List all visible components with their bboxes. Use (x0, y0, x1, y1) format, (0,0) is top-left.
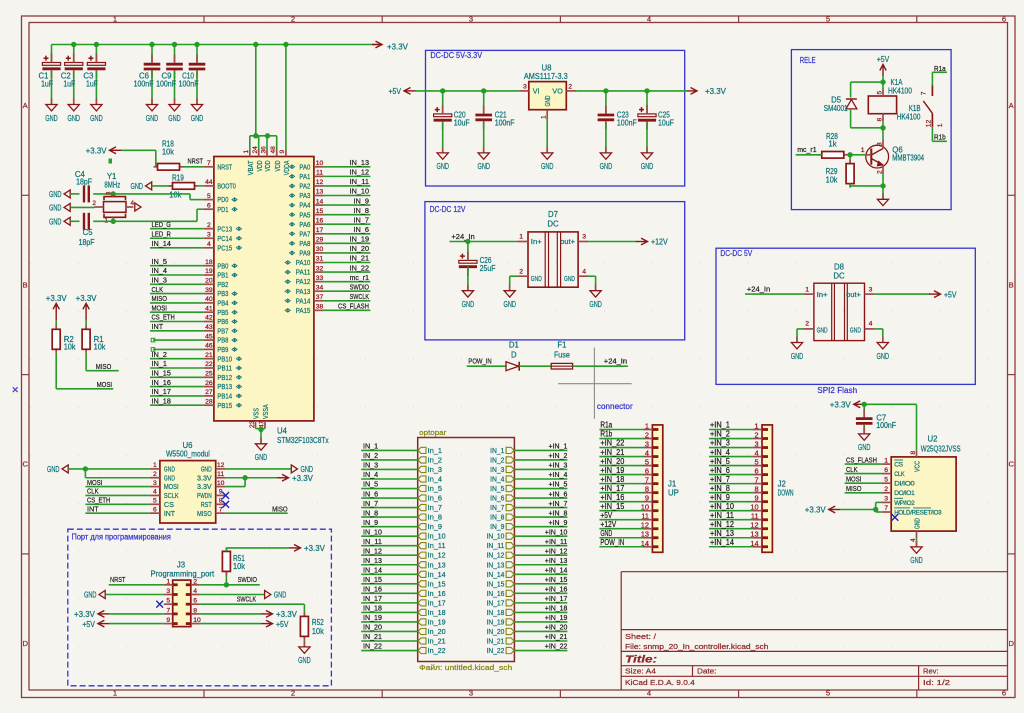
svg-text:PA3: PA3 (299, 191, 310, 200)
svg-text:34: 34 (316, 284, 324, 291)
svg-text:D1: D1 (509, 341, 519, 350)
svg-text:B: B (1009, 280, 1014, 289)
svg-text:+5V: +5V (877, 55, 890, 64)
svg-text:PB11: PB11 (217, 364, 232, 373)
svg-text:GND: GND (910, 556, 923, 565)
svg-text:IN_14: IN_14 (152, 239, 171, 248)
svg-text:D: D (22, 639, 28, 648)
svg-text:In+: In+ (817, 290, 828, 299)
svg-text:GND: GND (913, 518, 922, 529)
svg-text:IN_6: IN_6 (354, 225, 370, 234)
svg-text:6: 6 (153, 506, 157, 513)
svg-text:PA5: PA5 (299, 210, 310, 219)
svg-text:9: 9 (166, 617, 170, 624)
svg-text:IN_7: IN_7 (354, 215, 370, 224)
svg-text:IN_2: IN_2 (363, 451, 378, 460)
svg-text:PA6: PA6 (299, 220, 310, 229)
svg-text:DOWN: DOWN (778, 489, 794, 498)
svg-text:IN_9: IN_9 (363, 518, 378, 527)
svg-text:IN_5: IN_5 (152, 257, 168, 266)
svg-text:+IN_10: +IN_10 (545, 527, 568, 536)
svg-text:8: 8 (876, 118, 883, 122)
svg-text:5: 5 (166, 598, 170, 605)
svg-text:40: 40 (205, 296, 213, 303)
svg-text:HK4100: HK4100 (888, 87, 912, 96)
svg-text:U2: U2 (928, 435, 938, 444)
svg-text:2: 2 (519, 268, 523, 275)
svg-text:In_20: In_20 (428, 629, 446, 636)
svg-text:+IN_4: +IN_4 (710, 448, 731, 457)
svg-text:18: 18 (205, 259, 213, 266)
svg-text:8: 8 (645, 485, 649, 494)
svg-text:In_11: In_11 (428, 543, 446, 550)
svg-text:IN_1: IN_1 (490, 448, 504, 455)
svg-text:9: 9 (279, 150, 286, 154)
svg-text:10k: 10k (94, 343, 106, 352)
svg-text:W5500_modul: W5500_modul (166, 449, 210, 458)
svg-text:3: 3 (153, 480, 157, 487)
svg-text:+IN_4: +IN_4 (549, 470, 568, 479)
svg-text:+3.3V: +3.3V (830, 401, 851, 410)
svg-text:DC-DC 12V: DC-DC 12V (430, 205, 466, 214)
svg-text:IN_18: IN_18 (363, 604, 382, 613)
svg-text:CS_ETH: CS_ETH (87, 496, 110, 505)
svg-text:GND: GND (191, 114, 204, 123)
svg-text:100nF: 100nF (156, 80, 176, 89)
svg-text:IN_16: IN_16 (487, 591, 505, 598)
svg-text:MISO: MISO (272, 504, 288, 513)
svg-text:Порт для программирования: Порт для программирования (72, 533, 171, 542)
svg-text:PB9: PB9 (217, 345, 228, 354)
svg-text:+24_In: +24_In (747, 285, 770, 294)
svg-text:MOSI: MOSI (164, 482, 179, 491)
svg-text:Fuse: Fuse (554, 350, 570, 359)
svg-text:46: 46 (205, 343, 213, 350)
svg-text:CS: CS (894, 462, 903, 469)
svg-text:1: 1 (645, 422, 649, 431)
svg-text:SWDIO: SWDIO (238, 575, 257, 584)
svg-text:IN_4: IN_4 (152, 266, 168, 275)
svg-text:IN_7: IN_7 (490, 505, 504, 512)
svg-text:20: 20 (205, 278, 213, 285)
svg-text:IN_8: IN_8 (354, 206, 370, 215)
svg-text:IN_16: IN_16 (152, 378, 171, 387)
svg-text:1k: 1k (828, 140, 836, 149)
svg-text:DC: DC (547, 220, 559, 229)
svg-text:GND: GND (791, 352, 804, 361)
svg-text:8MHz: 8MHz (104, 180, 120, 189)
svg-text:POW_IN: POW_IN (468, 356, 491, 365)
svg-text:STM32F103C8Tx: STM32F103C8Tx (277, 436, 329, 445)
svg-text:In_22: In_22 (428, 648, 446, 655)
svg-text:MOSI: MOSI (152, 303, 168, 312)
svg-text:3: 3 (869, 286, 873, 293)
svg-text:+24_In: +24_In (451, 232, 474, 241)
svg-text:+3.3V: +3.3V (805, 506, 826, 515)
svg-text:4: 4 (647, 689, 651, 698)
svg-text:SCLK: SCLK (164, 491, 179, 500)
svg-text:9: 9 (645, 494, 649, 503)
svg-text:DC: DC (833, 271, 845, 280)
svg-text:PA12: PA12 (296, 277, 311, 286)
svg-text:IN_14: IN_14 (363, 565, 382, 574)
svg-text:11: 11 (316, 170, 323, 177)
svg-text:IN_13: IN_13 (350, 158, 369, 167)
svg-text:19: 19 (205, 268, 213, 275)
svg-text:J2: J2 (778, 479, 786, 488)
svg-text:38: 38 (316, 304, 324, 311)
svg-text:7: 7 (754, 476, 758, 485)
svg-text:GND: GND (817, 325, 828, 334)
svg-text:36: 36 (260, 146, 267, 154)
svg-text:In_3: In_3 (428, 467, 442, 474)
svg-text:PC14: PC14 (217, 234, 232, 243)
svg-text:+IN_21: +IN_21 (600, 448, 624, 457)
svg-text:7: 7 (207, 160, 211, 167)
svg-text:IN_7: IN_7 (363, 499, 378, 508)
svg-text:+3.3V: +3.3V (74, 610, 95, 619)
svg-text:PA1: PA1 (299, 172, 310, 181)
svg-text:+IN_11: +IN_11 (710, 511, 734, 520)
svg-text:INT: INT (152, 322, 164, 331)
svg-text:2: 2 (291, 689, 295, 698)
svg-text:GND: GND (49, 217, 62, 226)
svg-text:28: 28 (205, 398, 213, 405)
svg-text:25: 25 (205, 371, 213, 378)
svg-text:GND: GND (531, 274, 542, 283)
svg-text:PB5: PB5 (217, 308, 228, 317)
svg-text:PB2: PB2 (217, 280, 228, 289)
svg-text:AMS1117-3.3: AMS1117-3.3 (524, 72, 568, 81)
svg-text:16: 16 (316, 217, 324, 224)
svg-text:+IN_14: +IN_14 (545, 565, 568, 574)
svg-text:R52: R52 (312, 618, 324, 627)
svg-text:1: 1 (937, 123, 944, 127)
svg-text:+IN_9: +IN_9 (549, 518, 568, 527)
svg-text:17: 17 (316, 227, 324, 234)
svg-text:3: 3 (106, 191, 113, 195)
svg-text:+IN_20: +IN_20 (545, 623, 568, 632)
svg-text:PD0: PD0 (217, 195, 228, 204)
svg-text:Rev:: Rev: (923, 667, 939, 676)
svg-text:DC-DC 5V-3.3V: DC-DC 5V-3.3V (430, 51, 482, 60)
svg-text:In_9: In_9 (428, 524, 442, 531)
svg-text:7: 7 (884, 505, 888, 512)
svg-text:12: 12 (926, 120, 933, 128)
svg-text:+5V: +5V (389, 87, 402, 96)
svg-text:GND: GND (858, 443, 871, 452)
svg-text:3: 3 (645, 440, 649, 449)
svg-text:+IN_19: +IN_19 (545, 613, 568, 622)
svg-text:IN_1: IN_1 (363, 442, 378, 451)
svg-text:IN_12: IN_12 (350, 168, 369, 177)
svg-text:GND: GND (462, 300, 475, 309)
svg-text:IN_17: IN_17 (152, 387, 171, 396)
svg-text:In_12: In_12 (428, 553, 446, 560)
svg-text:+5V: +5V (82, 620, 95, 629)
svg-text:MOSI: MOSI (97, 380, 113, 389)
svg-text:VDDA: VDDA (282, 160, 291, 175)
svg-text:CS_FLASH: CS_FLASH (338, 302, 369, 311)
svg-text:4: 4 (645, 449, 649, 458)
svg-text:IN_3: IN_3 (152, 276, 168, 285)
svg-text:mc_r1: mc_r1 (797, 145, 816, 154)
svg-text:CLK: CLK (152, 285, 164, 294)
svg-text:PB14: PB14 (217, 392, 232, 401)
svg-text:B: B (23, 280, 28, 289)
svg-text:IN_22: IN_22 (350, 263, 369, 272)
svg-text:IN_21: IN_21 (350, 254, 369, 263)
svg-text:48: 48 (270, 146, 277, 154)
svg-text:INT: INT (87, 504, 99, 513)
svg-text:GND: GND (146, 114, 159, 123)
svg-text:5: 5 (754, 458, 758, 467)
svg-text:4: 4 (131, 200, 135, 207)
svg-text:1: 1 (519, 234, 523, 241)
svg-text:29: 29 (316, 237, 324, 244)
svg-text:+IN_10: +IN_10 (710, 502, 735, 511)
svg-text:SWDIO: SWDIO (350, 282, 369, 291)
svg-text:IN_11: IN_11 (350, 177, 369, 186)
svg-text:44: 44 (205, 179, 213, 186)
svg-text:PA4: PA4 (299, 201, 310, 210)
svg-text:D8: D8 (834, 263, 844, 272)
svg-text:+IN_5: +IN_5 (710, 457, 731, 466)
svg-text:IN_13: IN_13 (487, 562, 505, 569)
svg-text:+3.3V: +3.3V (276, 610, 297, 619)
svg-text:GND: GND (168, 114, 181, 123)
svg-text:C5: C5 (83, 228, 94, 237)
svg-text:BOOT0: BOOT0 (217, 182, 235, 191)
svg-text:IN_4: IN_4 (363, 470, 378, 479)
svg-text:IN_3: IN_3 (490, 467, 504, 474)
svg-text:3.3V: 3.3V (197, 482, 212, 491)
svg-text:+IN_22: +IN_22 (545, 642, 568, 651)
svg-text:6: 6 (645, 467, 649, 476)
svg-text:IN_21: IN_21 (487, 639, 505, 646)
svg-text:2: 2 (291, 15, 295, 24)
svg-text:F1: F1 (557, 341, 566, 350)
svg-text:optopar: optopar (419, 428, 447, 437)
svg-text:6: 6 (207, 202, 211, 209)
svg-text:RST: RST (201, 500, 212, 509)
svg-text:1uF: 1uF (86, 80, 98, 89)
svg-text:PC15: PC15 (217, 243, 232, 252)
svg-text:CLK: CLK (87, 487, 99, 496)
svg-text:CS_FLASH: CS_FLASH (846, 455, 877, 464)
svg-text:HK4100: HK4100 (897, 113, 921, 122)
svg-text:5: 5 (153, 498, 157, 505)
svg-text:3.3V: 3.3V (197, 473, 212, 482)
svg-text:Файл: untitled.kicad_sch: Файл: untitled.kicad_sch (419, 663, 512, 672)
svg-text:+12V: +12V (600, 520, 617, 529)
svg-text:1: 1 (153, 462, 157, 469)
svg-text:MOSI: MOSI (87, 478, 103, 487)
svg-text:SPI2 Flash: SPI2 Flash (817, 386, 857, 395)
svg-text:+IN_8: +IN_8 (710, 484, 730, 493)
svg-text:IN_6: IN_6 (490, 496, 504, 503)
svg-text:47: 47 (258, 420, 265, 428)
svg-text:+5V: +5V (600, 511, 613, 520)
svg-text:6: 6 (1002, 15, 1006, 24)
svg-text:IN_12: IN_12 (363, 546, 382, 555)
svg-text:+3.3V: +3.3V (76, 294, 97, 303)
svg-text:PC13: PC13 (217, 224, 232, 233)
svg-text:23: 23 (249, 420, 256, 428)
svg-text:8: 8 (910, 451, 917, 455)
svg-text:out+: out+ (560, 237, 575, 246)
svg-text:3: 3 (207, 231, 211, 238)
svg-text:PB0: PB0 (217, 261, 228, 270)
svg-text:4: 4 (754, 449, 758, 458)
svg-text:R1b: R1b (934, 133, 946, 142)
svg-text:4: 4 (207, 241, 211, 248)
svg-text:IN_5: IN_5 (490, 486, 504, 493)
svg-text:1: 1 (541, 115, 548, 119)
svg-text:In_15: In_15 (428, 581, 446, 588)
svg-text:PB1: PB1 (217, 271, 228, 280)
svg-text:IN_18: IN_18 (152, 396, 171, 405)
svg-text:+IN_18: +IN_18 (545, 604, 568, 613)
svg-text:100nF: 100nF (876, 421, 896, 430)
svg-text:+IN_14: +IN_14 (710, 538, 735, 547)
svg-text:Programming_port: Programming_port (151, 570, 215, 579)
svg-text:100nF: 100nF (179, 80, 199, 89)
svg-text:IN_19: IN_19 (363, 613, 382, 622)
svg-text:C: C (1008, 460, 1014, 469)
svg-text:+12V: +12V (651, 238, 668, 247)
svg-text:6: 6 (884, 467, 888, 474)
svg-text:IN_5: IN_5 (363, 480, 378, 489)
svg-text:Id: 1/2: Id: 1/2 (923, 678, 950, 687)
svg-text:IN_19: IN_19 (350, 235, 369, 244)
svg-text:PA0: PA0 (299, 162, 310, 171)
svg-text:+5V: +5V (276, 620, 289, 629)
svg-text:IN_20: IN_20 (350, 244, 369, 253)
svg-text:In_6: In_6 (428, 496, 442, 503)
svg-text:+IN_13: +IN_13 (710, 529, 734, 538)
svg-text:GND: GND (90, 114, 103, 123)
svg-text:43: 43 (205, 324, 213, 331)
svg-text:2: 2 (876, 170, 883, 174)
svg-text:3: 3 (469, 15, 473, 24)
svg-text:GND: GND (131, 182, 144, 191)
svg-text:GND: GND (641, 162, 654, 171)
svg-text:IN_1: IN_1 (152, 359, 168, 368)
svg-text:39: 39 (205, 287, 213, 294)
svg-text:41: 41 (205, 305, 213, 312)
svg-text:5: 5 (826, 689, 830, 698)
svg-text:31: 31 (316, 256, 324, 263)
svg-text:LED_R: LED_R (152, 229, 172, 238)
svg-text:IN_22: IN_22 (487, 648, 505, 655)
svg-text:1: 1 (861, 147, 865, 154)
svg-text:R19: R19 (172, 173, 184, 182)
svg-text:IN_19: IN_19 (487, 619, 505, 626)
svg-text:GND: GND (45, 114, 58, 123)
svg-text:INT: INT (164, 509, 176, 518)
svg-text:D: D (511, 350, 517, 359)
svg-text:2: 2 (93, 200, 97, 207)
svg-text:GND: GND (84, 591, 97, 600)
svg-text:+IN_18: +IN_18 (600, 475, 624, 484)
svg-text:10k: 10k (162, 148, 174, 157)
svg-text:D: D (1008, 639, 1014, 648)
svg-text:Sheet: /: Sheet: / (625, 632, 657, 641)
svg-text:MISO: MISO (846, 484, 862, 493)
svg-text:10k: 10k (169, 191, 181, 200)
svg-text:3: 3 (582, 234, 586, 241)
svg-text:37: 37 (316, 294, 324, 301)
svg-text:1: 1 (113, 689, 117, 698)
svg-text:PB6: PB6 (217, 317, 228, 326)
svg-text:+IN_1: +IN_1 (710, 421, 730, 430)
svg-text:R1a: R1a (600, 421, 612, 430)
svg-text:+IN_16: +IN_16 (600, 493, 624, 502)
svg-text:+IN_13: +IN_13 (545, 556, 568, 565)
svg-text:24: 24 (252, 146, 259, 154)
svg-text:3: 3 (469, 689, 473, 698)
svg-text:UP: UP (668, 489, 679, 498)
svg-text:WP/IO2: WP/IO2 (894, 500, 915, 507)
svg-text:+IN_3: +IN_3 (710, 439, 730, 448)
svg-text:6: 6 (1002, 689, 1006, 698)
svg-text:+IN_12: +IN_12 (710, 520, 734, 529)
svg-text:In_21: In_21 (428, 639, 446, 646)
svg-text:5: 5 (826, 15, 830, 24)
svg-text:10k: 10k (826, 176, 838, 185)
svg-text:5: 5 (876, 91, 883, 95)
svg-text:IN_17: IN_17 (487, 600, 505, 607)
svg-text:+3.3V: +3.3V (387, 43, 408, 52)
svg-text:+IN_9: +IN_9 (710, 493, 730, 502)
svg-text:PD1: PD1 (217, 205, 228, 214)
svg-text:PA11: PA11 (296, 268, 311, 277)
svg-text:IN_3: IN_3 (363, 461, 378, 470)
svg-text:PB8: PB8 (217, 336, 228, 345)
svg-text:4: 4 (582, 268, 586, 275)
svg-text:In+: In+ (531, 237, 542, 246)
svg-text:+IN_21: +IN_21 (545, 632, 568, 641)
svg-text:+3.3V: +3.3V (86, 147, 107, 156)
svg-text:PA14: PA14 (296, 296, 311, 305)
svg-text:2: 2 (153, 471, 157, 478)
svg-text:10: 10 (217, 480, 225, 487)
svg-text:GND: GND (589, 300, 602, 309)
svg-text:+5V: +5V (944, 290, 957, 299)
svg-text:MISO: MISO (96, 362, 112, 371)
svg-text:NRST: NRST (188, 156, 204, 165)
svg-text:VSSA: VSSA (261, 404, 270, 419)
svg-text:GND: GND (47, 465, 60, 474)
svg-text:GND: GND (436, 162, 449, 171)
svg-text:GND: GND (541, 162, 554, 171)
svg-text:10: 10 (316, 160, 324, 167)
svg-text:GND: GND (298, 656, 311, 665)
svg-text:IN_10: IN_10 (363, 527, 382, 536)
svg-text:GND: GND (164, 473, 175, 482)
svg-text:R1b: R1b (600, 430, 612, 439)
svg-text:IN_15: IN_15 (363, 575, 382, 584)
svg-text:PB4: PB4 (217, 299, 228, 308)
svg-text:+IN_19: +IN_19 (600, 466, 624, 475)
svg-text:7: 7 (166, 607, 170, 614)
svg-text:GND: GND (503, 300, 516, 309)
svg-text:22: 22 (205, 361, 213, 368)
svg-text:11: 11 (217, 471, 224, 478)
svg-text:12: 12 (316, 179, 324, 186)
svg-text:3: 3 (884, 496, 888, 503)
